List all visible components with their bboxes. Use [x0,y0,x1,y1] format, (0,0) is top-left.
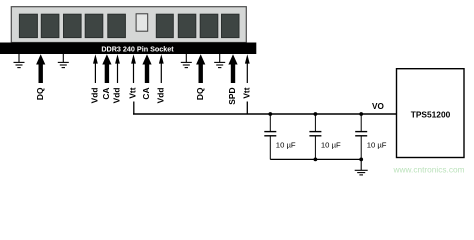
svg-text:Vtt: Vtt [128,87,138,98]
regulator U1 TPS51200 [397,69,465,158]
svg-text:DQ: DQ [35,87,45,100]
DRAM chip 2 [41,14,59,37]
thin arrow Vdd 2 [112,54,122,103]
wire Vtt1 down to bus [133,102,135,115]
ground G2 [58,54,69,68]
DRAM chip 1 [19,14,37,37]
DRAM chip 6 [156,14,173,37]
thin arrow Vtt 1 [128,54,138,98]
svg-text:TPS51200: TPS51200 [411,110,451,120]
svg-text:10 µF: 10 µF [367,140,387,149]
DDR3 DIMM module body [11,7,246,43]
wire Vtt2 down to bus [246,102,248,115]
svg-text:SPD: SPD [227,88,237,105]
wire Vtt bus to TPS51200 [134,112,397,115]
svg-text:Vdd: Vdd [156,88,166,104]
thin arrow Vdd 1 [90,54,100,103]
thin arrow Vtt 2 [242,54,252,98]
svg-text:DDR3 240 Pin Socket: DDR3 240 Pin Socket [101,44,174,53]
thick arrow SPD [227,54,237,104]
DRAM chip 7 [178,14,196,37]
node at capacitor C3 top [359,112,363,116]
capacitor C3 10uF [355,114,387,159]
node at capacitor C1 top [268,112,272,116]
SPD EEPROM chip [136,14,148,31]
ground G3 [181,54,192,68]
svg-text:www.cntronics.com: www.cntronics.com [393,165,465,175]
thick arrow DQ [35,54,45,100]
node at capacitor C3 bottom [359,158,363,162]
ground G1 [14,54,25,68]
DRAM chip 3 [64,14,82,37]
svg-text:Vdd: Vdd [112,88,122,104]
thick arrow CA 2 [141,54,151,99]
node at capacitor C2 top [314,112,318,116]
capacitor C1 10uF [264,114,296,159]
svg-text:VO: VO [372,102,384,111]
DRAM chip 5 [108,14,126,37]
node at capacitor C2 bottom [314,158,318,162]
DRAM chip 8 [200,14,218,37]
svg-text:CA: CA [141,88,151,100]
thick arrow CA 1 [101,54,111,99]
DDR3 240 Pin Socket bar [0,43,256,55]
ground G5 below C3 [355,159,368,175]
svg-text:10 µF: 10 µF [276,140,296,149]
DRAM chip 9 [222,14,240,37]
svg-text:Vtt: Vtt [242,87,252,98]
svg-text:10 µF: 10 µF [321,140,341,149]
DRAM chip 4 [85,14,103,37]
svg-text:CA: CA [101,88,111,100]
svg-text:Vdd: Vdd [90,88,100,104]
thick arrow DQ 2 [195,54,205,100]
svg-text:DQ: DQ [195,87,205,100]
wire capacitor bottom bus [270,158,361,160]
ground G4 [214,54,225,68]
thin arrow Vdd 3 [156,54,166,103]
capacitor C2 10uF [309,114,341,159]
